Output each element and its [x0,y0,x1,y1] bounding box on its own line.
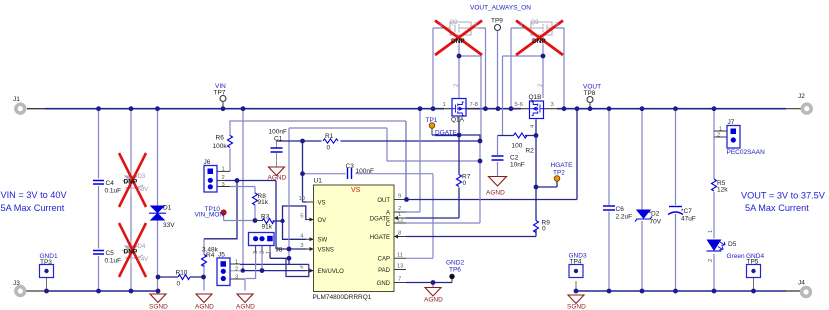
svg-text:10: 10 [299,196,305,202]
svg-text:J6: J6 [204,159,211,166]
svg-text:J4: J4 [798,280,805,287]
capacitor C3 [348,168,352,179]
svg-text:2.2uF: 2.2uF [616,214,633,221]
svg-text:GND2: GND2 [446,260,464,267]
svg-text:6: 6 [300,265,303,271]
node dots top rail [96,106,101,111]
connector J2 [802,104,811,113]
wire R1 row VS to x480 [303,140,481,142]
wire VS riser [303,141,307,202]
svg-text:VIN_MON: VIN_MON [195,212,225,219]
svg-text:C2: C2 [510,155,519,162]
svg-text:47uF: 47uF [681,216,696,223]
svg-text:TP1: TP1 [426,117,438,124]
testpoint TP10 red [221,210,226,215]
resistor R3 [262,219,274,224]
wire Q1B gate drop through R9 [535,120,537,237]
wire C6 column [608,109,610,291]
wire C4 C5 column [98,109,100,291]
testpoint TP8 [587,97,593,103]
svg-text:2: 2 [708,259,714,262]
wire GND4 TP5 stem [753,278,755,291]
gnd testpoint GND4 TP5 [747,265,761,278]
wire J7 stubs [714,131,727,137]
svg-text:R6: R6 [216,135,225,142]
connector J3 [16,287,25,296]
svg-text:CAP: CAP [378,257,390,263]
wire C3 row [303,173,434,175]
svg-text:Q1A: Q1A [451,117,465,124]
wire R6 top row y119.5 [230,121,406,171]
wire U1 left pin stubs [306,202,314,271]
svg-text:R1: R1 [325,133,334,140]
svg-text:AGND: AGND [486,190,505,197]
resistor R8 [253,193,258,205]
wire C7 column [675,109,677,291]
connector J5 [217,258,230,286]
svg-text:AGND: AGND [424,297,443,304]
wire TP7 stem [222,102,224,109]
wire VIN riser x243 [242,109,244,271]
testpoint TP6 black [449,274,454,279]
wire bottom rail right GND [577,290,787,292]
wire HGATE row [406,236,536,238]
svg-text:HGATE: HGATE [370,235,390,241]
svg-text:TP5: TP5 [747,259,759,266]
wire J6 pin2 row [217,180,225,182]
svg-text:R2: R2 [526,148,535,155]
wire Q3 source drop [503,35,544,136]
svg-text:1: 1 [235,260,238,266]
wire SW row jog [283,206,307,239]
svg-text:5A Max Current: 5A Max Current [1,203,65,213]
resistor R9 [534,221,539,233]
svg-text:24V: 24V [138,257,149,263]
diode D2 zener [635,210,652,222]
ground AGND under C1 [269,167,285,176]
svg-text:2: 2 [235,267,238,273]
svg-text:HGATE: HGATE [551,162,574,169]
svg-text:J2: J2 [798,93,805,100]
svg-text:VOUT = 3V to 37.5V: VOUT = 3V to 37.5V [741,191,826,201]
wire J8 pin1 drop [269,246,271,253]
wire VSNS row [276,248,307,250]
svg-text:R10: R10 [176,270,188,277]
wire C2 column [497,136,499,177]
svg-text:11: 11 [397,252,403,258]
wire AGND drop pin7 [432,283,434,288]
wire J6 pin2 drop to R4 [204,181,237,239]
svg-text:0.1uF: 0.1uF [105,188,122,195]
diode D3 DNP [122,170,143,195]
svg-text:C3: C3 [346,163,355,170]
svg-text:3: 3 [253,251,259,254]
svg-text:TP2: TP2 [553,170,565,177]
connector J8 [249,233,275,246]
svg-text:D4: D4 [138,244,146,250]
capacitor C4 [93,181,104,185]
svg-text:DNP: DNP [124,179,138,186]
svg-text:0: 0 [327,145,331,152]
red X over Q3 [516,21,563,56]
ground AGND under C2 [489,177,507,187]
svg-text:AGND: AGND [236,304,255,310]
resistor R2 [514,133,527,138]
svg-text:DNP: DNP [451,38,465,45]
svg-text:PAD: PAD [378,268,391,274]
connector J4 [802,288,811,297]
svg-text:33V: 33V [163,222,175,229]
svg-text:0: 0 [463,180,467,187]
svg-text:5A Max Current: 5A Max Current [745,203,809,213]
svg-text:0: 0 [177,281,181,288]
svg-text:3: 3 [300,243,303,249]
wire TP8 stem [589,103,591,109]
svg-text:3: 3 [235,275,238,281]
wire GND3 TP4 stem [575,281,577,291]
wire U1 right pin stubs [394,200,406,283]
svg-text:TP6: TP6 [449,267,461,274]
svg-text:3: 3 [222,182,225,188]
svg-text:12: 12 [397,218,403,224]
ground SGND under TP4 [568,295,584,304]
svg-text:OV: OV [318,218,327,224]
wire R3 right to OV SW node [273,220,283,222]
svg-text:AGND: AGND [195,304,214,310]
resistor R10 [178,275,190,280]
wire EN row J5 pin2 to pin6 [230,270,241,272]
U1 left pin arrows [310,218,314,273]
wire R2 row [498,135,537,137]
resistor R5 [712,179,717,191]
capacitor C1 [271,148,283,152]
svg-text:R3: R3 [261,214,270,221]
wire J6 pin3 to R8 [217,186,230,188]
wire R10 row [158,276,204,278]
node dots middle [457,54,462,59]
resistor R6 [228,136,233,148]
svg-text:J5: J5 [218,252,225,259]
svg-text:OUT: OUT [377,198,390,204]
gnd testpoint GND3 TP4 [569,265,583,278]
svg-text:9: 9 [398,194,401,200]
resistor R4 [202,255,207,267]
svg-text:*C7: *C7 [681,208,692,215]
svg-text:Q2: Q2 [450,20,459,26]
testpoint TP9 [495,25,501,31]
svg-text:5: 5 [300,214,303,220]
red X over D3 [119,153,146,207]
svg-text:C6: C6 [616,206,625,213]
svg-text:J8: J8 [276,247,283,254]
svg-text:TP4: TP4 [570,259,582,266]
wire y128 row to x387 [289,128,480,161]
wire TP9 stem [497,31,499,109]
svg-text:D3: D3 [138,174,146,180]
svg-text:91k: 91k [262,224,273,231]
svg-text:TP8: TP8 [584,90,596,97]
svg-text:TP9: TP9 [491,18,503,25]
svg-text:VOUT_ALWAYS_ON: VOUT_ALWAYS_ON [470,5,531,12]
wire C riser x480 [406,141,480,223]
capacitor C7 polarized [668,207,683,215]
svg-text:7: 7 [398,277,401,283]
IC U1 body [314,185,395,292]
svg-text:C: C [386,222,391,228]
wire D1 column [157,109,159,291]
svg-text:2: 2 [717,133,720,139]
svg-text:12k: 12k [717,187,728,194]
ground AGND under R10 [196,294,212,303]
ground AGND under pin7 [425,288,441,297]
svg-text:58V: 58V [138,187,149,193]
svg-text:DNP: DNP [124,249,138,256]
wire OUT row to rail riser [406,109,577,200]
svg-text:100k: 100k [213,143,228,150]
svg-text:U1: U1 [314,178,323,185]
svg-text:DGATE: DGATE [435,130,458,137]
capacitor C6 [603,206,615,210]
svg-text:VSNS: VSNS [318,248,334,254]
svg-text:1: 1 [708,230,714,233]
testpoint TP7 [220,96,226,102]
wire R3 left stub [255,220,262,222]
gnd testpoint GND1 TP3 [40,265,54,278]
svg-text:PLM74800DRRRQ1: PLM74800DRRRQ1 [313,294,372,301]
ground SGND bottom left [150,294,166,303]
wire CAP riser x433 [406,174,433,259]
resistor R1 [323,139,338,143]
wire TP2 tap [536,181,557,187]
svg-text:J1: J1 [13,96,20,103]
ground AGND under J5 [237,294,253,303]
mosfet Q1B [530,101,544,122]
svg-text:VS: VS [351,187,361,194]
capacitor C5 [93,251,104,255]
testpoint TP2 orange [554,176,560,182]
svg-text:PEC02SAAN: PEC02SAAN [727,149,766,156]
diode D1 TVS bidirectional [149,206,166,220]
svg-text:R4: R4 [206,252,215,259]
svg-text:100nF: 100nF [356,168,374,175]
wire R5 D5 column [713,109,715,291]
testpoint TP1 orange [429,123,435,129]
svg-text:AGND: AGND [268,175,287,182]
svg-text:7-8: 7-8 [470,102,478,108]
svg-text:5-6: 5-6 [515,102,523,108]
wire J6 pin1 stub [217,170,230,172]
wire TP1 stem [431,129,433,136]
wire net riser x289 J8 node [288,128,290,264]
svg-text:2: 2 [260,251,266,254]
LED D5 [707,240,726,251]
svg-text:D5: D5 [728,241,737,248]
svg-text:SW: SW [318,238,328,244]
wire GND row pin7 [406,282,452,284]
connector J1 [16,104,25,113]
svg-text:Q3: Q3 [531,20,540,26]
wire Q2 source drop [459,35,481,141]
wire J8 pin2 drop to EN [261,246,263,253]
svg-text:D1: D1 [163,205,172,212]
connector J7 [727,126,740,149]
svg-text:1: 1 [266,251,272,254]
svg-text:1: 1 [222,167,225,173]
svg-text:TP7: TP7 [214,90,226,97]
svg-text:SGND: SGND [149,304,168,310]
svg-text:100nF: 100nF [269,129,287,136]
svg-text:DNP: DNP [532,38,546,45]
connector J6 [204,166,217,193]
wire top rail VIN [27,108,45,110]
red X over Q2 [435,21,482,56]
diode D4 DNP [122,240,143,265]
svg-text:TP3: TP3 [40,259,52,266]
svg-text:100: 100 [512,143,523,150]
wire C1 node [276,141,278,167]
wire R4 column divider [203,239,205,291]
svg-text:*D2: *D2 [649,211,660,218]
svg-text:8: 8 [398,231,401,237]
wire DGATE row [432,134,459,136]
svg-text:2: 2 [222,175,225,181]
mosfet Q3 DNP [524,22,556,45]
wire R8 bottom to TP10 node [224,205,255,221]
mosfet Q2 DNP [444,22,479,45]
svg-text:0: 0 [542,226,546,233]
svg-text:13: 13 [397,264,403,270]
node dots bottom rails [44,289,49,294]
svg-text:C4: C4 [106,180,115,187]
svg-text:VS: VS [318,201,326,207]
wire J5 pin3 to AGND [230,278,245,280]
svg-text:C1: C1 [274,136,283,143]
svg-text:J3: J3 [13,280,20,287]
red X over D4 [119,223,146,277]
wire R7 column DGATE [406,121,459,218]
wire J8 pin3 drop [255,246,257,253]
svg-text:1: 1 [443,102,446,108]
svg-text:91k: 91k [258,199,269,206]
svg-text:Green: Green [727,253,745,260]
wire GND1 TP3 stem [46,278,48,292]
wire bottom rail left SGND [26,290,47,292]
svg-text:GND: GND [377,281,391,287]
svg-text:70V: 70V [650,219,662,226]
resistor R7 [457,175,462,187]
svg-text:EN/UVLO: EN/UVLO [318,269,345,275]
capacitor C2 [492,156,504,160]
svg-text:0.1uF: 0.1uF [105,258,122,265]
U1 right pin arrows [394,216,398,239]
mosfet Q1A [452,99,466,122]
svg-text:SGND: SGND [567,304,586,310]
svg-text:J7: J7 [728,119,735,126]
wire D2 column [641,109,643,291]
wire Q3 DNP loop [511,28,564,109]
svg-text:VIN = 3V to 40V: VIN = 3V to 40V [1,190,68,200]
svg-text:C5: C5 [106,250,115,257]
wire J5 pin1 row [230,263,240,265]
svg-text:10nF: 10nF [510,162,525,169]
svg-text:3: 3 [551,102,554,108]
svg-text:Q1B: Q1B [529,94,542,101]
wire Q2 DNP loop [433,28,486,109]
wire D3 D4 DNP column [130,109,132,291]
wire x420 VIN to A pin [406,109,420,212]
